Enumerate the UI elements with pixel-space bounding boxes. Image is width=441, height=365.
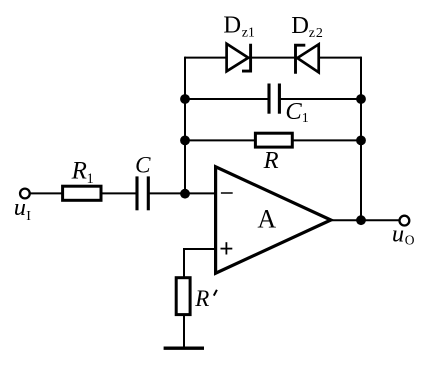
label Dz1	[223, 12, 255, 41]
label R'	[194, 286, 217, 311]
svg-text:O: O	[405, 232, 415, 247]
wire left rail C1-to-R	[184, 99, 186, 140]
svg-text:1: 1	[87, 171, 94, 187]
wire noninverting input	[184, 248, 216, 250]
wire left rail top corner	[184, 57, 186, 99]
svg-text:R: R	[194, 286, 209, 311]
wire input to C left plate	[30, 192, 137, 194]
node R row left	[180, 136, 190, 146]
svg-text:R: R	[263, 147, 279, 174]
node C1 row right	[356, 94, 366, 104]
svg-text:D: D	[291, 12, 309, 39]
svg-text:I: I	[26, 209, 31, 224]
wire right rail C1-to-R	[360, 99, 362, 140]
output terminal	[400, 216, 410, 226]
zener diode Dz2	[296, 44, 319, 74]
wire C to inverting input	[148, 192, 215, 194]
label uI	[14, 194, 32, 224]
input terminal	[20, 189, 30, 199]
svg-text:R: R	[71, 158, 87, 185]
node R row right	[356, 136, 366, 146]
svg-text:z1: z1	[242, 25, 255, 40]
wire top feedback row	[185, 57, 361, 59]
wire left rail R-to-node	[184, 140, 186, 193]
svg-text:u: u	[392, 221, 404, 248]
svg-text:D: D	[223, 12, 241, 39]
resistor R	[255, 133, 292, 147]
label C1	[285, 98, 308, 126]
svg-text:C: C	[285, 98, 302, 125]
capacitor C	[137, 176, 148, 210]
wire R row	[185, 139, 361, 141]
wire C1 row left	[185, 98, 269, 100]
node inverting input	[180, 189, 190, 199]
capacitor C1	[269, 84, 279, 114]
wire output	[331, 219, 400, 221]
svg-text:A: A	[257, 204, 276, 233]
svg-text:u: u	[14, 194, 26, 221]
wire noninverting branch down to ground	[183, 248, 185, 347]
resistor R1	[63, 186, 101, 200]
op-amp plus sign	[221, 242, 233, 254]
op-amp U1 triangle	[216, 167, 331, 273]
op-amp minus sign	[221, 192, 233, 194]
node output	[356, 215, 366, 225]
svg-text:z2: z2	[309, 26, 323, 41]
svg-text:1: 1	[302, 111, 309, 126]
resistor R'	[176, 278, 190, 315]
label R1	[71, 158, 94, 188]
ground	[164, 347, 204, 350]
wire right rail top corner	[360, 57, 362, 99]
label uO	[392, 221, 415, 248]
wire C1 row right	[279, 98, 361, 100]
node C1 row left	[180, 94, 190, 104]
wire right rail R-to-output	[360, 140, 362, 220]
zener diode Dz1	[227, 44, 251, 72]
svg-text:C: C	[135, 153, 151, 178]
label Dz2	[291, 12, 323, 41]
